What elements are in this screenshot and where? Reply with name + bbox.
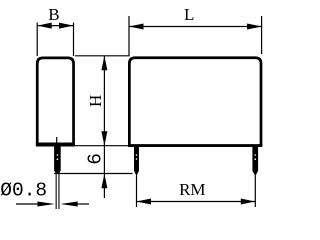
lead 1 crimp dots: [57, 154, 59, 156]
lead 1 wire right line: [58, 171, 60, 210]
dimension B extension line left: [36, 23, 38, 57]
dimension B extension line right: [73, 23, 75, 57]
dimension diameter 0.8 left tail: [16, 203, 37, 205]
dimension RM arrow right: [241, 199, 256, 205]
dimension diameter arrow left (pointing right): [37, 202, 54, 207]
svg-text:L: L: [184, 5, 194, 24]
dimension L arrow left: [129, 24, 144, 30]
lead 1 wire left line: [55, 171, 57, 210]
dimension H arrow up: [101, 56, 107, 71]
dimension diameter right tail: [78, 203, 89, 205]
lead 1 stub above seating: [56, 137, 58, 145]
dimension L line: [129, 26, 262, 28]
dimension H top extension line: [75, 55, 130, 57]
dimension B arrow left: [37, 23, 52, 29]
dimension H line: [103, 56, 105, 146]
lead 1 (side view) crimped section: [54, 145, 61, 174]
dimension diameter arrow right (pointing left): [60, 202, 77, 207]
dimension 6 seating plane extension line: [54, 173, 133, 175]
lead 2 extension line down to RM dimension: [136, 173, 138, 207]
dimension L extension line right: [261, 16, 263, 54]
front view bottom edge: [128, 144, 262, 147]
side view bottom edge: [36, 142, 75, 145]
dimension RM line: [137, 201, 256, 203]
dimension RM arrow left: [137, 199, 152, 205]
svg-text:H: H: [86, 95, 105, 107]
dimension B arrow right: [59, 23, 74, 29]
dimension 6 arrow up (outside): [101, 174, 107, 189]
dimension B line: [37, 25, 73, 27]
lead 2 crimp dots: [136, 154, 138, 156]
lead 3 (front view right) crimped section: [252, 147, 258, 175]
dimension L extension line left: [128, 16, 130, 56]
svg-text:Ø0.8: Ø0.8: [0, 179, 47, 201]
svg-text:B: B: [48, 5, 59, 24]
dimension H bottom extension line: [75, 145, 128, 147]
capacitor body front view (L x H outline): [129, 58, 261, 146]
lead 2 (front view left) crimped section: [134, 147, 139, 175]
lead 3 crimp dots: [254, 154, 256, 156]
svg-text:RM: RM: [179, 180, 205, 199]
svg-text:6: 6: [84, 153, 106, 165]
lead 3 extension line down to RM dimension: [254, 173, 256, 207]
dimension H arrow down: [101, 131, 107, 146]
capacitor body side view (B x H outline): [37, 58, 73, 145]
dimension L arrow right: [247, 24, 262, 30]
dimension 6 (lead length) line with tail: [103, 146, 105, 198]
